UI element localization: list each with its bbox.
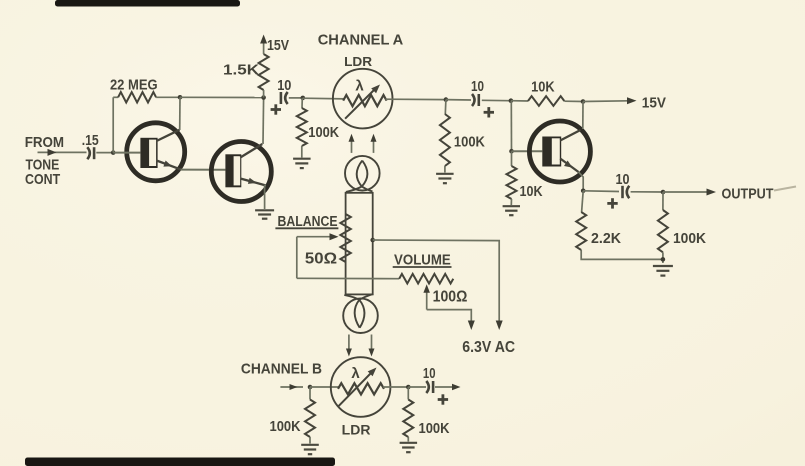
- wire channel B input: [280, 386, 303, 388]
- svg-text:10: 10: [471, 78, 484, 95]
- resistor R8 10K horizontal: [528, 96, 564, 106]
- LDR B circle: [331, 357, 391, 417]
- capacitor C2 10: [280, 92, 283, 104]
- LDR B internal resistor zigzag: [338, 383, 384, 394]
- lamp B filament loop: [344, 295, 364, 328]
- wire node to C5: [408, 386, 426, 388]
- svg-text:10K: 10K: [531, 79, 555, 96]
- ground G2 below R3: [293, 158, 311, 160]
- ground G6 channel B left: [301, 444, 319, 446]
- svg-text:2.2K: 2.2K: [591, 230, 621, 247]
- LDR A arrow: [345, 89, 375, 119]
- wire R12 to ground: [407, 437, 409, 442]
- light arrow left (lamp A to LDR A): [351, 140, 353, 153]
- resistor R1 22 MEG: [118, 92, 156, 102]
- arrow channel B output: [452, 384, 461, 390]
- svg-text:100Ω: 100Ω: [433, 289, 468, 306]
- wire to 15V arrow right: [583, 100, 628, 103]
- wire to LDR B: [310, 386, 340, 388]
- wire LDR A right to 100K node: [386, 98, 446, 100]
- arrow 15V right: [627, 97, 637, 104]
- svg-text:CHANNEL B: CHANNEL B: [241, 360, 322, 377]
- wire Q2 collector up to rail: [262, 98, 265, 145]
- svg-text:1.5K: 1.5K: [223, 61, 259, 78]
- wire C3 to Q3 base node: [482, 99, 511, 101]
- resistor R2 1.5K: [259, 54, 269, 90]
- resistor R9 2.2K: [576, 212, 586, 250]
- wire to OUTPUT arrow: [663, 191, 708, 193]
- plus sign C5: [438, 398, 448, 401]
- wire rail node to C3: [446, 99, 471, 101]
- node balance right edge: [370, 238, 375, 243]
- wire R10 to ground node: [662, 252, 664, 263]
- wire Q1 emitter to Q2 base: [181, 169, 226, 171]
- LDR A internal resistor zigzag: [343, 95, 386, 106]
- wire R9 bottom corner to ground node: [581, 250, 663, 259]
- wire rail node to 1.5K node: [180, 96, 264, 98]
- capacitor C4 10: [621, 186, 624, 198]
- wire rail to 22MEG: [113, 96, 118, 98]
- volume wiper arrow: [426, 290, 428, 310]
- svg-text:15V: 15V: [642, 95, 666, 112]
- svg-text:10: 10: [277, 77, 291, 94]
- light arrow left (lamp B to LDR B): [348, 335, 350, 351]
- arrow 6.3VAC right: [496, 321, 503, 331]
- scan artifact bar top: [55, 0, 240, 7]
- wire 22MEG to collector node: [156, 96, 180, 98]
- wire R8 to collector node: [564, 100, 583, 102]
- wire C2 to 100K node: [289, 97, 303, 99]
- wire emitter node down to 2.2K: [582, 191, 584, 212]
- svg-text:6.3V AC: 6.3V AC: [462, 339, 515, 356]
- node 100K R3 junction: [301, 96, 306, 101]
- wire node to R8: [511, 100, 528, 102]
- lamp B circle: [343, 298, 378, 333]
- svg-text:10: 10: [616, 171, 630, 188]
- arrow 6.3VAC left: [468, 321, 475, 331]
- wire C4 to output node: [631, 191, 663, 193]
- resistor R12 100K channel B right: [407, 387, 409, 400]
- node 1.5K/rail junction: [261, 95, 266, 100]
- node 100K R6 junction: [444, 97, 449, 102]
- node channel B left junction: [308, 385, 313, 390]
- ground G3 below R6: [436, 173, 454, 175]
- svg-text:100K: 100K: [454, 133, 485, 150]
- wire volume wiper to 6.3VAC: [427, 310, 472, 323]
- wire Q3 collector up to rail node: [582, 102, 584, 130]
- wire emitter node to C4: [583, 190, 619, 193]
- svg-text:CONT: CONT: [25, 171, 60, 188]
- wire 1.5K to 15V arrow: [263, 39, 265, 54]
- lamp A circle: [345, 156, 380, 191]
- Q3 collector line: [560, 130, 580, 141]
- ground G4 below R7: [503, 205, 520, 207]
- resistor R7 10K vertical: [507, 166, 517, 199]
- capacitor C5 10: [426, 381, 429, 393]
- resistor R3 100K: [301, 98, 303, 108]
- svg-text:22 MEG: 22 MEG: [110, 76, 158, 93]
- potentiometer R4 BALANCE 50 ohm zigzag: [340, 214, 350, 262]
- svg-text:100K: 100K: [673, 230, 706, 247]
- plus sign C4: [607, 202, 617, 205]
- node ground junction: [661, 257, 666, 262]
- node Q3 base/rail junction: [509, 98, 514, 103]
- arrow OUTPUT: [707, 189, 717, 196]
- Q2 collector line: [240, 144, 262, 158]
- plus sign C3: [484, 111, 494, 114]
- LDR A circle: [333, 69, 393, 129]
- resistor R6 100K: [444, 100, 447, 114]
- wire balance wiper left down: [296, 237, 298, 279]
- wire node down to Q3 base level: [510, 101, 512, 152]
- resistor R10 100K: [662, 192, 664, 210]
- wire Q2 emitter down to ground: [265, 186, 266, 210]
- arrow channel B input: [290, 384, 298, 390]
- node collector Q1 junction: [178, 95, 183, 100]
- transistor Q1: [127, 123, 185, 181]
- node A junction input/base: [111, 150, 116, 155]
- svg-text:10: 10: [423, 366, 436, 382]
- svg-text:LDR: LDR: [342, 423, 371, 438]
- svg-text:OUTPUT: OUTPUT: [722, 185, 774, 202]
- potentiometer R5 VOLUME 100 ohm zigzag: [399, 274, 453, 284]
- svg-text:50Ω: 50Ω: [305, 251, 337, 268]
- svg-text:10K: 10K: [520, 183, 543, 200]
- wire node to LDR A: [303, 97, 345, 100]
- svg-text:100K: 100K: [308, 124, 339, 141]
- capacitor C1 .15: [87, 147, 90, 159]
- faint scan mark right of OUTPUT: [774, 187, 796, 191]
- wire Q1 collector up to node: [179, 97, 181, 130]
- svg-text:λ: λ: [351, 365, 360, 382]
- capacitor C3 10: [472, 94, 475, 106]
- scan artifact bar bottom: [25, 458, 335, 466]
- wire Q3 emitter to output corner: [579, 172, 584, 191]
- transistor Q2: [211, 142, 271, 202]
- light arrow right (lamp A to LDR A): [373, 140, 375, 153]
- wire base node down to 10K R7: [511, 151, 513, 166]
- arrow 15V supply top: [260, 35, 267, 44]
- wire R7 to ground: [510, 199, 512, 205]
- wire Q1 base: [113, 152, 140, 154]
- light arrow right (lamp B to LDR B): [371, 335, 373, 351]
- wire cap to input node: [96, 152, 113, 154]
- svg-text:FROM: FROM: [25, 134, 64, 151]
- wire wiper bottom to volume pot: [297, 277, 399, 279]
- balance assembly box: [346, 193, 373, 295]
- ground G1 below Q2: [255, 209, 274, 211]
- node Q3 collector junction: [581, 99, 586, 104]
- wire R11 to ground: [309, 437, 311, 444]
- node Q3 emitter junction: [581, 189, 586, 194]
- wire input line: [38, 151, 87, 153]
- ground G7 channel B right: [400, 442, 418, 444]
- wire Q3 base: [512, 150, 543, 152]
- node channel B right junction: [406, 385, 411, 390]
- svg-text:.15: .15: [82, 132, 99, 149]
- node base junction: [509, 149, 514, 154]
- svg-text:CHANNEL A: CHANNEL A: [318, 31, 404, 48]
- svg-text:100K: 100K: [270, 418, 301, 435]
- underline BALANCE: [275, 227, 338, 229]
- Q3 emitter line with arrow: [560, 159, 578, 173]
- ground G5 output: [653, 265, 673, 267]
- underline VOLUME: [393, 266, 452, 268]
- svg-text:λ: λ: [355, 78, 364, 95]
- wire R3 to ground: [301, 146, 303, 158]
- LDR B arrow: [338, 373, 371, 407]
- transistor Q3: [529, 121, 590, 182]
- wire balance right to 6.3VAC drop: [373, 240, 500, 323]
- input arrowhead: [48, 149, 57, 156]
- resistor R11 100K channel B left: [309, 387, 311, 400]
- balance wiper arrow: [297, 236, 331, 238]
- wire LDR B right: [383, 386, 408, 388]
- svg-text:LDR: LDR: [344, 54, 373, 69]
- node output junction: [661, 190, 666, 195]
- Q1 collector line: [157, 130, 180, 141]
- svg-text:100K: 100K: [419, 420, 450, 437]
- wire C5 to channel B output arrow: [435, 386, 453, 388]
- lamp A filament loop: [346, 161, 368, 192]
- svg-text:15V: 15V: [267, 37, 289, 54]
- plus sign C2: [271, 108, 281, 111]
- wire node A up to feedback rail: [112, 97, 114, 152]
- Q2 emitter line with arrow: [240, 179, 266, 186]
- wire R6 to ground: [444, 166, 446, 173]
- Q1 emitter line with arrow: [157, 161, 181, 170]
